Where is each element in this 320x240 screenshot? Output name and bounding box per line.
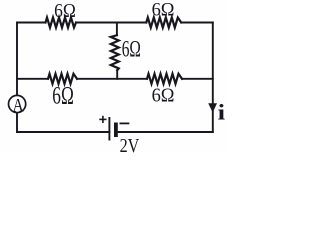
resistor R3 6ohm (middle-left) — [48, 74, 77, 84]
svg-text:i: i — [218, 100, 226, 125]
wire middle-left segment — [17, 78, 48, 80]
resistor R1 6ohm (top-left) — [46, 18, 77, 28]
resistor R5 6ohm (vertical center) — [111, 35, 119, 70]
svg-text:6Ω: 6Ω — [54, 1, 76, 22]
ammeter A1 circle — [9, 95, 26, 112]
wire left vertical upper — [16, 23, 18, 95]
svg-text:6Ω: 6Ω — [122, 37, 141, 62]
svg-text:6Ω: 6Ω — [152, 0, 175, 21]
wire bottom-right segment — [118, 131, 213, 133]
wire vertical resistor top stub — [116, 23, 118, 36]
wire top-left segment — [17, 22, 46, 24]
wire top-middle segment — [76, 22, 146, 24]
resistor R4 6ohm (middle-right) — [147, 74, 182, 84]
svg-text:6Ω: 6Ω — [52, 83, 74, 110]
battery B1 negative plate (short thick) — [114, 123, 118, 138]
wire vertical resistor bottom stub — [116, 70, 118, 79]
svg-text:2V: 2V — [120, 135, 140, 153]
wire bottom-left segment — [17, 131, 109, 133]
battery B1 positive plate (long thin) — [108, 117, 110, 141]
wire middle-right segment — [182, 78, 213, 80]
current arrowhead on right wire — [208, 103, 217, 112]
resistor R2 6ohm (top-right) — [146, 18, 181, 28]
wire left vertical lower — [16, 113, 18, 132]
wire middle-center segment — [77, 78, 147, 80]
svg-text:6Ω: 6Ω — [152, 85, 175, 107]
wire right vertical — [212, 23, 214, 132]
battery minus sign — [120, 122, 130, 124]
wire top-right segment — [181, 22, 213, 24]
battery plus sign — [99, 116, 106, 123]
svg-text:A: A — [13, 95, 25, 116]
